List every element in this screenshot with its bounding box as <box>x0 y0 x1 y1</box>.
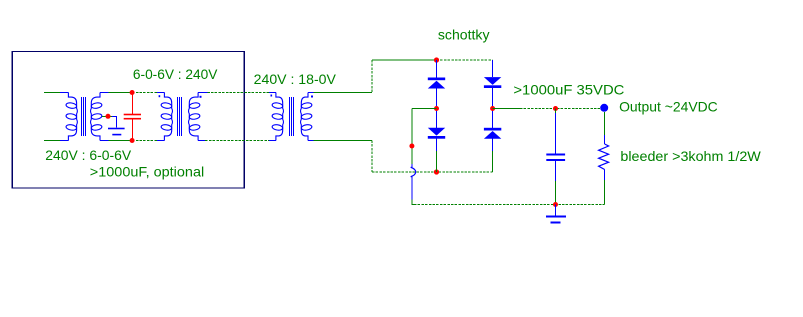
wire T2-T3 top (dashed) <box>207 92 269 94</box>
svg-text:Output ~24VDC: Output ~24VDC <box>619 99 718 115</box>
wire bridge bottom rail (dashed) <box>372 171 493 173</box>
wire left leg bottom segment <box>436 139 438 172</box>
svg-text:>1000uF, optional: >1000uF, optional <box>90 164 204 180</box>
wire bleeder bottom lead blue <box>604 170 606 181</box>
capacitor C1 plates <box>124 114 141 120</box>
svg-text:6-0-6V : 240V: 6-0-6V : 240V <box>133 66 218 82</box>
node C1 top junction <box>130 90 135 95</box>
resistor R1 bleeder zigzag <box>599 144 609 170</box>
wire T2 secondary bottom lead <box>198 140 205 142</box>
wire AC2 vertical (dashed) <box>371 141 373 173</box>
ground symbol in box <box>108 128 125 136</box>
transformer T3 primary winding <box>272 93 284 141</box>
capacitor C1 (optional) top lead <box>131 93 133 114</box>
node bridge bottom rail junction <box>434 169 439 174</box>
transformer T3 secondary phase dot <box>311 96 313 98</box>
wire AC2 horizontal <box>314 140 373 142</box>
wire DC+ rail right (dashed) <box>520 108 601 110</box>
wire DC- vertical upper <box>411 109 413 165</box>
transformer T2 secondary phase dot <box>200 96 202 98</box>
wire box bottom rail left <box>109 140 133 142</box>
transformer T1 secondary winding <box>91 93 103 141</box>
wire box top rail left <box>109 92 133 94</box>
svg-text:240V : 18-0V: 240V : 18-0V <box>254 71 337 87</box>
capacitor C2 top lead green <box>555 109 557 115</box>
wire bridge top rail left <box>372 59 437 61</box>
wire box bottom rail right (dashed) <box>132 140 157 142</box>
wire T1 primary bottom stub <box>44 140 62 142</box>
wire T3 secondary bottom lead <box>308 140 314 142</box>
transformer T1 primary winding <box>66 93 78 141</box>
label 240V : 18-0V <box>254 71 337 87</box>
wire T1 primary bottom lead <box>60 140 68 142</box>
svg-text:bleeder >3kohm 1/2W: bleeder >3kohm 1/2W <box>620 148 761 164</box>
wire T2 primary bottom lead <box>157 140 164 142</box>
diode D3 (schottky, upper right) <box>484 77 501 88</box>
wire left leg middle segment <box>436 89 438 128</box>
node output terminal <box>600 104 608 112</box>
wire DC- horizontal <box>412 108 437 110</box>
wire box top rail right (dashed) <box>132 92 157 94</box>
wire T1 primary top stub <box>44 92 62 94</box>
label 240V : 6-0-6V <box>45 147 131 163</box>
capacitor C1 bottom lead <box>131 120 133 141</box>
node center tap junction <box>106 114 111 119</box>
label >1000uF, optional <box>90 164 204 180</box>
wire bridge top rail right (dashed) <box>437 59 493 61</box>
transformer T3 secondary winding <box>301 93 313 141</box>
wire AC1 horizontal <box>314 92 373 94</box>
node left leg middle junction (DC-) <box>434 106 439 111</box>
label bleeder >3kohm 1/2W <box>620 148 761 164</box>
wire T3 primary bottom lead <box>269 140 276 142</box>
wire T1 secondary bottom lead <box>100 140 109 142</box>
wire AC1 vertical (dashed) <box>371 60 373 93</box>
capacitor C2 plates <box>546 154 565 162</box>
wire T3 secondary top lead <box>308 92 314 94</box>
label Output ~24VDC <box>619 99 718 115</box>
wire 0V rail (dashed) <box>414 204 604 206</box>
wire hop over bottom rail <box>411 167 416 176</box>
outer box (sub-circuit enclosure) <box>12 52 244 189</box>
wire T2 primary top lead <box>157 92 164 94</box>
transformer T2 core <box>178 97 182 136</box>
wire T3 primary top lead <box>269 92 276 94</box>
node C2 bottom junction <box>553 202 558 207</box>
wire right leg top segment <box>492 60 494 77</box>
wire bleeder top lead green <box>603 112 605 136</box>
capacitor C2 bottom lead blue <box>555 161 557 181</box>
wire DC- vertical blue lower <box>411 176 413 199</box>
wire left leg top segment <box>436 60 438 78</box>
svg-text:240V : 6-0-6V: 240V : 6-0-6V <box>45 147 131 163</box>
wire T2-T3 bottom (dashed) <box>205 140 269 142</box>
wire center tap stub <box>102 115 112 117</box>
diode D4 (schottky, lower right) <box>484 128 501 139</box>
label schottky <box>438 26 490 42</box>
capacitor C2 top lead blue <box>555 113 557 154</box>
label 6-0-6V : 240V <box>133 66 218 82</box>
wire right leg bottom segment <box>492 139 494 172</box>
node bridge top rail junction <box>434 57 439 62</box>
transformer T3 primary phase dot <box>271 95 273 97</box>
diode D1 (schottky, upper left) <box>428 78 445 89</box>
transformer T2 primary winding <box>161 93 173 141</box>
wire bleeder top lead blue <box>604 135 606 144</box>
wire DC+ rail left <box>493 108 520 110</box>
transformer T3 core <box>290 97 294 136</box>
transformer T2 primary phase dot <box>159 95 161 97</box>
wire right leg middle segment <box>492 88 494 128</box>
wire T1 secondary top lead <box>100 92 109 94</box>
capacitor C2 bottom lead green <box>555 181 557 205</box>
wire bleeder bottom lead green <box>603 180 605 205</box>
label >1000uF 35VDC <box>513 82 624 98</box>
node C1 bottom junction <box>130 138 135 143</box>
wire T1 primary top lead <box>60 92 68 94</box>
transformer T2 secondary winding <box>189 93 201 141</box>
diode D2 (schottky, lower left) <box>428 128 445 139</box>
wire T2 secondary top lead <box>198 92 207 94</box>
node DC- wire junction <box>409 144 414 149</box>
node right leg middle junction (DC+) <box>490 106 495 111</box>
wire DC- vertical blue upper <box>411 164 413 168</box>
transformer T1 core <box>82 97 86 136</box>
ground symbol main <box>546 205 566 224</box>
svg-text:>1000uF 35VDC: >1000uF 35VDC <box>513 82 624 98</box>
svg-text:schottky: schottky <box>438 26 490 42</box>
node C2 top junction <box>553 106 558 111</box>
wire center tap to ground <box>112 116 117 127</box>
wire DC- corner to 0V rail <box>412 200 416 205</box>
